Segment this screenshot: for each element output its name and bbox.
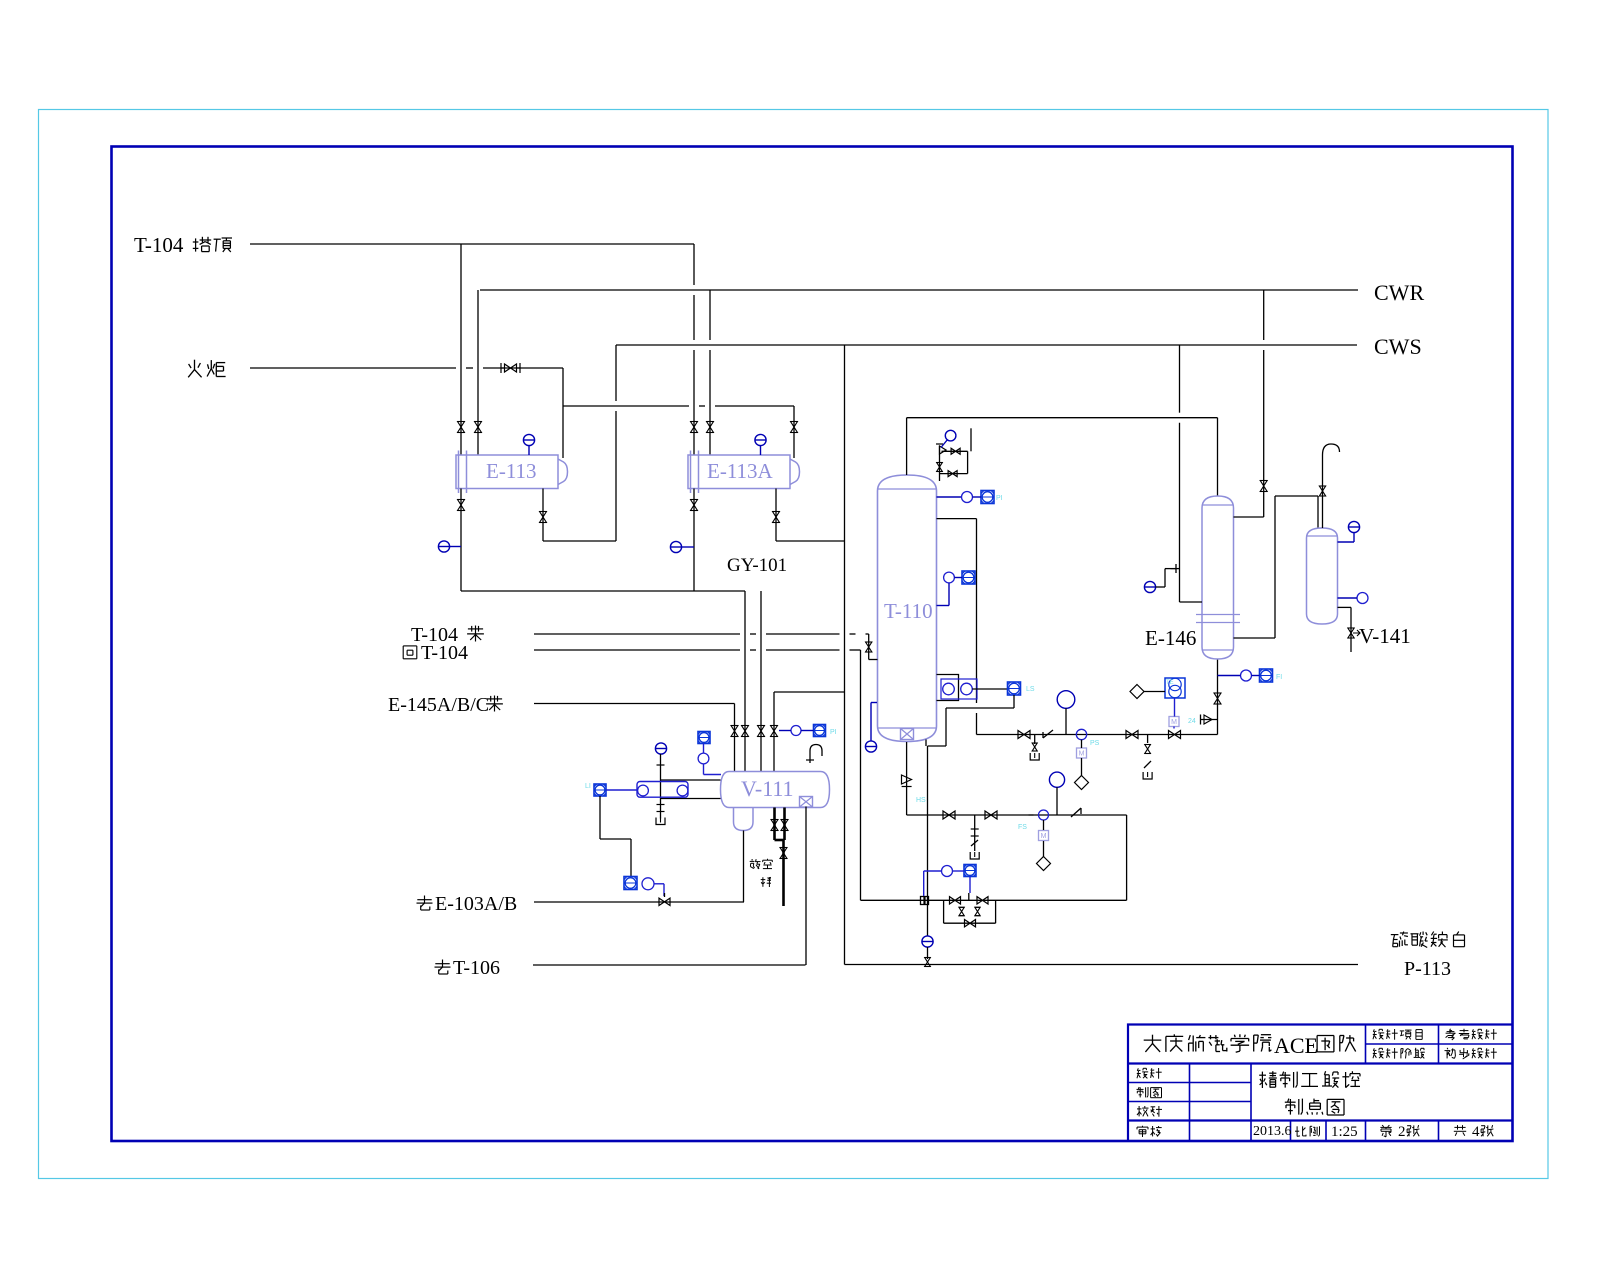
wire x774 to V-111 bbox=[773, 692, 775, 771]
svg-text:2: 2 bbox=[1398, 1124, 1406, 1140]
svg-text:P-113: P-113 bbox=[1404, 958, 1451, 980]
instrument LG top theta bbox=[655, 743, 666, 754]
svg-text:PI: PI bbox=[830, 729, 837, 736]
instrument PI on E-113 bbox=[523, 434, 534, 445]
svg-text:M: M bbox=[1079, 751, 1085, 758]
V-141 vent gooseneck bbox=[1322, 455, 1324, 528]
instrument E-113A cond PI bbox=[670, 541, 681, 552]
control valve train A bbox=[1169, 731, 1181, 739]
wire y406 E-113 to E-113A shell link bbox=[563, 405, 689, 407]
instrument PS circle train A bbox=[1076, 729, 1086, 739]
svg-text:GY-101: GY-101 bbox=[727, 555, 787, 576]
wire V-111 boot drain bbox=[743, 831, 745, 903]
valve x761 V-111 inlet bbox=[758, 726, 765, 737]
wire T-110 bottom right outlet stub bbox=[925, 740, 927, 747]
instrument LIC square bbox=[594, 784, 606, 796]
svg-text:T-104: T-104 bbox=[134, 233, 184, 257]
exchanger E-146 bbox=[1202, 496, 1234, 659]
sample pot circle train B bbox=[1049, 772, 1064, 787]
interlock diamond train B bbox=[1037, 857, 1051, 871]
valve E-113A inlet n1 bbox=[691, 422, 698, 433]
solenoid M square train B bbox=[1039, 831, 1049, 841]
check valve train A bbox=[1043, 730, 1053, 738]
valve train A 2 bbox=[1126, 731, 1138, 739]
wire E-146 bottoms bbox=[1217, 659, 1219, 735]
wire T-110 overhead bbox=[906, 418, 908, 475]
wire E-113A water out bbox=[775, 489, 777, 542]
valve E-113 inlet n1 bbox=[458, 422, 465, 433]
wire hui T-104 header y650 bbox=[534, 649, 740, 651]
level bridle rectangle T-110 bbox=[937, 675, 959, 701]
svg-text:LS: LS bbox=[1026, 686, 1035, 693]
wire E-113A condensate out bbox=[693, 489, 695, 592]
wire drop to E-146 top bbox=[1217, 418, 1219, 496]
wire x927 to theta bbox=[927, 746, 929, 936]
wire x745 header to V-111 bbox=[744, 591, 746, 771]
instrument PG circle bbox=[962, 492, 973, 503]
wire x1126 drop to manifold bbox=[1126, 815, 1128, 900]
left rows bbox=[1137, 1068, 1162, 1079]
svg-text:V-141: V-141 bbox=[1359, 624, 1411, 648]
valve on qu E-103 line bbox=[659, 898, 670, 905]
wire T-104 feed drop bbox=[868, 634, 870, 660]
heat exchanger E-113A bbox=[688, 451, 800, 494]
valve T-110 bottoms angle bbox=[902, 775, 912, 784]
title block bbox=[1128, 1025, 1512, 1142]
wire PG tap y497 bbox=[937, 496, 962, 498]
wire drain stub x1034 bbox=[1034, 735, 1036, 745]
svg-text:PS: PS bbox=[1090, 740, 1100, 747]
instrument LT circle A bbox=[638, 785, 649, 796]
wire CWS drop to E-146 bbox=[1179, 345, 1181, 413]
wire CWS riser x844 down bbox=[844, 345, 846, 965]
svg-text:TE: TE bbox=[1166, 680, 1174, 686]
wire CWR header bbox=[480, 289, 1358, 291]
svg-text:PI: PI bbox=[996, 495, 1003, 502]
valve train B 1 bbox=[943, 811, 955, 819]
label flare (huoju) bbox=[188, 360, 225, 378]
svg-text:M: M bbox=[1171, 719, 1177, 726]
valve E-113A cond bbox=[691, 500, 698, 511]
wire bridle top tap bbox=[661, 779, 721, 781]
svg-text:CWS: CWS bbox=[1374, 334, 1422, 359]
vessel V-141 bbox=[1307, 528, 1338, 624]
wire condensate header y591 bbox=[461, 590, 745, 592]
svg-text:LI: LI bbox=[585, 783, 591, 790]
valve E-113 cond bbox=[458, 500, 465, 511]
svg-text:24: 24 bbox=[1188, 718, 1196, 725]
label qu E-103A/B bbox=[417, 896, 433, 911]
valve x734 V-111 inlet bbox=[731, 726, 738, 737]
wire pump manifold y900 bbox=[861, 899, 1127, 901]
valve E-113 inlet n2 bbox=[475, 422, 482, 433]
wire x946 drop bbox=[945, 708, 947, 746]
svg-text:T-104: T-104 bbox=[421, 642, 468, 664]
wire train B y815 bbox=[907, 814, 1127, 816]
valve x774 V-111 inlet bbox=[771, 726, 778, 737]
wire E-113 water out bbox=[542, 489, 544, 542]
valve manifold 1 bbox=[950, 897, 961, 904]
wire y708 bbox=[946, 707, 1014, 709]
outer cyan frame bbox=[39, 110, 1549, 1179]
wire CWS riser x616 bbox=[615, 345, 617, 401]
svg-text:2013.6: 2013.6 bbox=[1253, 1124, 1292, 1139]
svg-text:V-111: V-111 bbox=[741, 776, 794, 801]
label liusuanan bai bbox=[1391, 932, 1465, 948]
wire vent drop bbox=[782, 840, 785, 906]
valve E-113 water bbox=[540, 512, 547, 523]
wire T-110 bottoms bbox=[906, 742, 908, 815]
svg-text:E-113: E-113 bbox=[486, 459, 537, 483]
svg-text:T-106: T-106 bbox=[453, 957, 500, 979]
relief valve PSV triangle bbox=[940, 446, 947, 454]
valve x745 V-111 inlet bbox=[742, 726, 749, 737]
valve CWR drop bbox=[1260, 481, 1267, 492]
instrument E-113 cond PI bbox=[438, 541, 449, 552]
wire E-113A water to riser x844 bbox=[776, 540, 845, 542]
svg-text:1:25: 1:25 bbox=[1331, 1124, 1358, 1140]
svg-text:HS: HS bbox=[916, 797, 926, 804]
instrument LT circle B bbox=[677, 785, 688, 796]
instrument inline circle train B bbox=[1039, 810, 1049, 820]
wire train A y734 bbox=[977, 734, 1218, 736]
wire x563 flare to E-113 shell top bbox=[562, 368, 564, 458]
V-111 internal vortex breaker box bbox=[800, 797, 813, 808]
wire bridle bottom tap bbox=[661, 798, 721, 800]
wire CWR drop to E-146 right bbox=[1263, 290, 1265, 340]
wire ammonium sulfate line to P-113 bbox=[845, 964, 1359, 966]
wire T-104 overhead header y244 bbox=[250, 243, 694, 245]
instrument V-141 PI bbox=[1348, 521, 1359, 532]
instrument LIC x-square bbox=[1008, 682, 1021, 695]
wire qu T-106 line bbox=[533, 964, 806, 966]
drain funnel x1034 bbox=[1030, 753, 1039, 760]
V-111 top PT square and circle bbox=[698, 732, 710, 744]
valve E-113A shell inlet bbox=[791, 422, 798, 433]
wire E-113 water to CWS riser bbox=[543, 540, 616, 542]
wire drain leg x974 bbox=[974, 815, 976, 851]
pump circle train A bbox=[1057, 691, 1075, 709]
wire x761 GY-101 line to V-111 bbox=[760, 591, 762, 771]
check valve train B bbox=[1071, 808, 1081, 817]
small cells top right bbox=[1373, 1029, 1422, 1040]
svg-text:CWR: CWR bbox=[1374, 280, 1424, 305]
instrument theta near E-146 bbox=[1144, 581, 1155, 592]
wire to LIC bbox=[972, 688, 1008, 690]
instrument PI manifold bbox=[942, 866, 953, 877]
valve manifold 2 bbox=[977, 897, 988, 904]
vessel V-111 reflux drum bbox=[721, 772, 830, 831]
valve E-113A inlet n2 bbox=[707, 422, 714, 433]
instrument relief pilot circle bbox=[945, 430, 956, 441]
column T-110 bbox=[878, 475, 937, 742]
instrument FI E-146 bottoms bbox=[1241, 670, 1252, 681]
instrument TIC double circle bbox=[1165, 678, 1185, 698]
wire LT tap bbox=[948, 583, 950, 606]
instrument T-110 bottom theta bbox=[865, 741, 876, 752]
bypass loop below manifold bbox=[943, 900, 945, 923]
wire flare line y368 bbox=[250, 367, 456, 369]
svg-text:E-103A/B: E-103A/B bbox=[435, 893, 517, 915]
wire LIC drop bbox=[1013, 695, 1015, 708]
wire overhead to E-146 bbox=[907, 417, 1218, 419]
M square above control valve bbox=[1169, 717, 1179, 727]
heat exchanger E-113 bbox=[456, 451, 568, 494]
instrument FI circle bbox=[642, 878, 654, 890]
wire V-141 drain bbox=[1338, 606, 1352, 608]
drain funnel x974 bbox=[970, 852, 979, 859]
wire E-113 condensate out bbox=[460, 489, 462, 592]
wire x734 E-145 to V-111 bbox=[734, 704, 736, 772]
wire x694 drop to E-113A n1 bbox=[693, 244, 695, 285]
svg-text:FI: FI bbox=[1276, 674, 1282, 681]
label qu T-106 bbox=[435, 960, 451, 975]
wire x461 drop to E-113 n1 bbox=[460, 244, 462, 455]
wire CWS header bbox=[616, 344, 1357, 346]
drawing title jingzhi gongduan kongzhidiantu bbox=[1259, 1071, 1360, 1088]
drain funnel bridle bbox=[656, 818, 665, 825]
check stub E-146 bottoms bbox=[1201, 719, 1218, 721]
valve train B 2 bbox=[985, 811, 997, 819]
instrument PT manifold bbox=[964, 865, 976, 877]
svg-text:T-110: T-110 bbox=[884, 599, 933, 623]
svg-text:4: 4 bbox=[1472, 1124, 1480, 1140]
valve E-113A water bbox=[773, 512, 780, 523]
interlock diamond left of TIC bbox=[1130, 685, 1144, 699]
valve flare line globe bbox=[500, 363, 502, 373]
wire drain leg x1147 (stub) bbox=[1147, 735, 1149, 744]
interlock diamond train A bbox=[1075, 776, 1089, 790]
inner navy border frame bbox=[112, 147, 1513, 1142]
wire hui T-104 drop x860 bbox=[860, 650, 862, 900]
svg-text:E-113A: E-113A bbox=[707, 459, 774, 483]
V-111 vent gooseneck bbox=[810, 745, 822, 764]
instrument theta on P-113 line bbox=[922, 936, 933, 947]
valve E-146 bottoms bbox=[1214, 693, 1221, 704]
wire LIC to qu E-103 valve bbox=[599, 796, 601, 839]
wire x478 drop CWR to E-113 n2 bbox=[477, 290, 479, 455]
wire level bridle x660 bbox=[660, 754, 662, 819]
instrument FIC square bbox=[624, 877, 637, 890]
wire V-111 boot x806 to qu T-106 bbox=[805, 807, 807, 966]
wire y692 branch bbox=[774, 691, 845, 693]
instrument PI on E-113A bbox=[755, 434, 766, 445]
drain funnel x1147 bbox=[1143, 772, 1152, 779]
svg-text:E-146: E-146 bbox=[1145, 626, 1196, 650]
svg-text:E-145A/B/C: E-145A/B/C bbox=[388, 694, 489, 716]
wire relief riser bbox=[939, 446, 941, 481]
instrument V-141 LI bbox=[1357, 593, 1368, 604]
wire side draw y518 bbox=[937, 518, 977, 520]
svg-text:M: M bbox=[1041, 833, 1047, 840]
heavy drain lines V-111 bottom bbox=[773, 808, 776, 841]
square below PS bbox=[1077, 748, 1087, 758]
T-110 bottom X box bbox=[901, 729, 914, 740]
wire x976 down to train A bbox=[976, 519, 978, 703]
label hui T-104 bbox=[403, 646, 417, 659]
instrument pair right of x774 valve bbox=[791, 726, 801, 736]
wire x710 drop CWR to E-113A n2 bbox=[709, 290, 711, 340]
svg-text:ACE: ACE bbox=[1274, 1033, 1318, 1058]
level displacer capsule bbox=[637, 782, 688, 798]
valve train A 1 bbox=[1018, 731, 1030, 739]
inline strainer box manifold bbox=[921, 897, 929, 905]
instrument LT circle bbox=[944, 572, 955, 583]
label fangkong liao (vent) bbox=[750, 859, 773, 869]
wire qu E-103A/B line bbox=[534, 901, 744, 903]
title text Daqing Normal University ACE team bbox=[1144, 1034, 1272, 1052]
wire T-104 lai header y634 bbox=[534, 633, 740, 635]
svg-text:FS: FS bbox=[1018, 824, 1027, 831]
wire E-145 header y703 bbox=[534, 703, 735, 705]
wire x794 drop to E-113A shell top bbox=[793, 406, 795, 458]
wire E-146 to V-141 bbox=[1234, 637, 1276, 639]
